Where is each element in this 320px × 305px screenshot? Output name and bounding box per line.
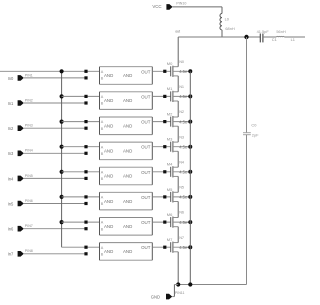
svg-text:PIN5: PIN5 (25, 174, 33, 178)
wire U1 OUT to M1 gate (152, 95, 170, 97)
wire U2 OUT to M2 gate (152, 121, 170, 123)
transistor M6 (167, 212, 192, 228)
AND gate U1 (100, 92, 153, 110)
wire In7 pin to AND7 input B (24, 253, 86, 255)
svg-text:OUT: OUT (141, 195, 151, 200)
wire U3 OUT to M3 gate (152, 146, 170, 148)
wire M6 source to M7 drain (node N7) (177, 227, 179, 243)
wire GND pin to ground wire (172, 296, 174, 298)
svg-text:AND: AND (123, 98, 132, 103)
pin node B of U3 (84, 152, 87, 155)
svg-text:AND: AND (104, 249, 113, 254)
input pin In2 (PIN3) (8, 124, 33, 132)
wire M0 source to M1 drain (node N1) (177, 76, 179, 92)
pin node B of U5 (84, 202, 87, 205)
transistor M5 (167, 187, 192, 203)
wire bus to AND6 input A (62, 221, 100, 223)
wire M2 source to M3 drain (node N3) (177, 126, 179, 142)
wire C1 to L1 (263, 36, 276, 38)
input pin In4 (PIN5) (8, 174, 33, 182)
transistor M0 (167, 61, 192, 77)
wire M3 source to M4 drain (node N4) (177, 151, 179, 167)
svg-text:AND: AND (104, 123, 113, 128)
svg-text:AND: AND (104, 73, 113, 78)
wire In1 pin to AND1 input B (24, 102, 86, 104)
input pin In0 (PIN1) (8, 73, 33, 81)
wire In4 pin to AND4 input B (24, 177, 86, 179)
svg-text:N2: N2 (179, 110, 184, 114)
pin node B of U1 (84, 101, 87, 104)
svg-text:2pF: 2pF (252, 132, 259, 137)
svg-text:OUT: OUT (141, 170, 151, 175)
svg-text:In6: In6 (8, 227, 14, 232)
svg-text:OUT: OUT (141, 220, 151, 225)
GND pin (PIN11) (151, 291, 185, 300)
wire bus to AND2 input A (62, 121, 100, 123)
pin node A of U0 (84, 70, 87, 73)
wire shared A-input net from left edge (row 0) (0, 70, 100, 72)
input pin In6 (PIN7) (8, 224, 33, 232)
svg-text:OUT: OUT (141, 94, 151, 99)
svg-text:In7: In7 (8, 252, 14, 257)
capacitor C0 2pF (243, 123, 259, 138)
inductor L1 56nH (276, 29, 295, 42)
capacitor C1 41.5pF (257, 29, 277, 43)
pin node B of U4 (84, 177, 87, 180)
wire In5 pin to AND5 input B (24, 203, 86, 205)
svg-text:N7: N7 (179, 236, 184, 240)
pin node A of U2 (84, 120, 87, 123)
svg-text:PIN8: PIN8 (25, 249, 33, 253)
VCC pin (PIN10) (152, 2, 186, 10)
wire U4 OUT to M4 gate (152, 171, 170, 173)
vertical bus distributing A-input net (61, 71, 63, 247)
svg-text:PIN7: PIN7 (25, 224, 33, 228)
svg-text:In4: In4 (8, 176, 14, 181)
pin node A of U7 (84, 246, 87, 249)
pin node OUT of U0 (163, 70, 166, 73)
svg-text:C0: C0 (251, 123, 257, 128)
wire M4 source to M5 drain (node N5) (177, 176, 179, 192)
svg-text:AND: AND (123, 123, 132, 128)
svg-text:out: out (175, 29, 180, 33)
svg-text:M1: M1 (167, 86, 173, 91)
wire output node to C0 (246, 37, 248, 133)
pin node OUT of U6 (163, 221, 166, 224)
svg-text:56nH: 56nH (276, 29, 285, 34)
svg-text:N5: N5 (179, 186, 184, 190)
wire In6 pin to AND6 input B (24, 228, 86, 230)
svg-text:AND: AND (123, 73, 132, 78)
input pin In1 (PIN2) (8, 98, 33, 106)
junction chain / ground wire (176, 282, 180, 286)
svg-text:M5: M5 (167, 187, 173, 192)
svg-text:AND: AND (104, 149, 113, 154)
svg-text:L1: L1 (291, 37, 295, 42)
svg-text:GND: GND (151, 294, 160, 299)
svg-text:M6: M6 (167, 212, 173, 217)
svg-text:M4: M4 (167, 162, 173, 167)
svg-text:OUT: OUT (141, 245, 151, 250)
junction M7 bulk / rail (188, 245, 192, 249)
pin node B of U6 (84, 227, 87, 230)
pin node B of U2 (84, 127, 87, 130)
pin node B of U7 (84, 252, 87, 255)
svg-text:N4: N4 (179, 160, 184, 164)
wire L0 to output node (221, 30, 223, 37)
wire bus to AND1 input A (62, 95, 100, 97)
svg-text:AND: AND (123, 224, 132, 229)
AND gate U0 (100, 67, 153, 85)
junction M2 bulk / rail (188, 120, 192, 124)
ground wire (bottom) (178, 284, 246, 286)
svg-text:PIN4: PIN4 (25, 149, 33, 153)
wire U6 OUT to M6 gate (152, 221, 170, 223)
svg-text:AND: AND (123, 249, 132, 254)
svg-text:C1: C1 (272, 37, 277, 42)
pin node A of U4 (84, 170, 87, 173)
svg-text:In5: In5 (8, 201, 14, 206)
svg-text:41.5pF: 41.5pF (257, 29, 270, 34)
svg-text:In3: In3 (8, 151, 14, 156)
svg-text:AND: AND (123, 149, 132, 154)
input pin In5 (PIN6) (8, 199, 33, 207)
pin node OUT of U3 (163, 145, 166, 148)
pin node OUT of U2 (163, 120, 166, 123)
transistor M3 (167, 137, 192, 153)
AND gate U4 (100, 167, 153, 185)
junction M3 bulk / rail (188, 145, 192, 149)
wire bus to AND5 input A (62, 196, 100, 198)
svg-text:In1: In1 (8, 101, 14, 106)
svg-text:68nH: 68nH (225, 26, 234, 31)
svg-text:L0: L0 (225, 16, 230, 21)
svg-text:VCC: VCC (152, 4, 161, 9)
junction bus / A-row 6 (60, 220, 64, 224)
svg-text:AND: AND (123, 174, 132, 179)
wire M5 source to M6 drain (node N6) (177, 202, 179, 218)
output node wire (top) (178, 36, 260, 38)
junction bus / A-row 0 (60, 69, 64, 73)
svg-text:M2: M2 (167, 111, 173, 116)
wire U5 OUT to M5 gate (152, 196, 170, 198)
svg-text:M3: M3 (167, 137, 173, 142)
svg-text:AND: AND (104, 174, 113, 179)
svg-text:N6: N6 (179, 211, 184, 215)
wire In0 pin to AND0 input B (24, 77, 86, 79)
wire M1 source to M2 drain (node N2) (177, 101, 179, 117)
AND gate U2 (100, 117, 153, 135)
AND gate U5 (100, 192, 153, 210)
transistor M4 (167, 162, 192, 178)
pin node A of U5 (84, 195, 87, 198)
svg-text:AND: AND (104, 224, 113, 229)
junction M1 bulk / rail (188, 94, 192, 98)
wire U0 OUT to M0 gate (152, 70, 170, 72)
svg-text:AND: AND (104, 98, 113, 103)
svg-text:OUT: OUT (141, 145, 151, 150)
svg-text:PIN6: PIN6 (25, 199, 33, 203)
pin node A of U3 (84, 145, 87, 148)
ground wire left end corner (174, 284, 178, 286)
svg-text:OUT: OUT (141, 120, 151, 125)
transistor M7 (167, 237, 192, 253)
pin node B of U0 (84, 76, 87, 79)
junction bus / A-row 5 (60, 195, 64, 199)
AND gate U6 (100, 218, 153, 236)
transistor M2 (167, 111, 192, 127)
svg-text:PIN3: PIN3 (25, 124, 33, 128)
bulk rail (189, 71, 191, 284)
wire L1 to right edge (284, 36, 305, 38)
transistor M1 (167, 86, 192, 102)
junction M6 bulk / rail (188, 220, 192, 224)
junction output node / C0 branch (244, 35, 248, 39)
wire In2 pin to AND2 input B (24, 127, 86, 129)
svg-text:PIN11: PIN11 (175, 291, 185, 295)
AND gate U7 (100, 243, 153, 261)
wire bus to AND3 input A (62, 146, 100, 148)
junction bus / A-row 4 (60, 170, 64, 174)
junction M0 bulk / rail (188, 69, 192, 73)
svg-text:AND: AND (104, 199, 113, 204)
pin node OUT of U4 (163, 170, 166, 173)
svg-text:In0: In0 (8, 76, 14, 81)
svg-text:AND: AND (123, 199, 132, 204)
junction bus / A-row 2 (60, 120, 64, 124)
svg-text:OUT: OUT (141, 69, 151, 74)
svg-text:N3: N3 (179, 135, 184, 139)
svg-text:PIN1: PIN1 (25, 73, 33, 77)
wire U7 OUT to M7 gate (152, 246, 170, 248)
wire bus to AND4 input A (62, 171, 100, 173)
pin node OUT of U1 (163, 95, 166, 98)
AND gate U3 (100, 142, 153, 160)
junction bus / A-row 1 (60, 94, 64, 98)
svg-text:In2: In2 (8, 126, 14, 131)
pin node OUT of U7 (163, 246, 166, 249)
wire VCC pin to L0 (173, 6, 222, 8)
junction M5 bulk / rail (188, 195, 192, 199)
pin node A of U1 (84, 95, 87, 98)
svg-text:M0: M0 (167, 61, 173, 66)
svg-text:PIN2: PIN2 (25, 98, 33, 102)
wire top node to M0 drain (177, 37, 179, 67)
pin node A of U6 (84, 221, 87, 224)
svg-text:M7: M7 (167, 237, 173, 242)
inductor L0 68nH (220, 14, 235, 32)
wire M7 source to ground wire (177, 252, 179, 285)
wire C0 to ground wire (246, 135, 248, 285)
wire In3 pin to AND3 input B (24, 152, 86, 154)
input pin In3 (PIN4) (8, 149, 33, 157)
junction bus / A-row 3 (60, 145, 64, 149)
junction rail / ground wire (188, 282, 192, 286)
svg-text:N1: N1 (179, 85, 184, 89)
svg-text:N0: N0 (179, 60, 184, 64)
input pin In7 (PIN8) (8, 249, 33, 257)
svg-text:PIN10: PIN10 (176, 2, 186, 6)
junction M4 bulk / rail (188, 170, 192, 174)
wire bus to AND7 input A (62, 246, 100, 248)
pin node OUT of U5 (163, 195, 166, 198)
